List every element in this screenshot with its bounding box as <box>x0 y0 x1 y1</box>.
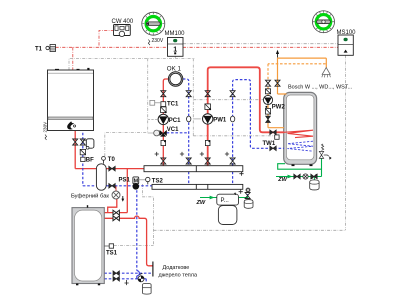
svg-text:TW1: TW1 <box>263 141 276 147</box>
svg-text:Додаткове: Додаткове <box>163 265 190 271</box>
svg-text:PW1: PW1 <box>213 118 227 124</box>
svg-text:Буферний бак: Буферний бак <box>71 193 109 200</box>
svg-text:230V: 230V <box>152 38 164 44</box>
svg-text:TS1: TS1 <box>106 251 118 257</box>
svg-text:230V: 230V <box>43 121 48 133</box>
svg-text:VC1: VC1 <box>167 127 179 133</box>
svg-text:P...: P... <box>221 198 230 204</box>
svg-text:PC1: PC1 <box>169 118 181 124</box>
svg-text:PS1: PS1 <box>119 177 131 183</box>
svg-text:T0: T0 <box>108 157 116 163</box>
svg-text:джерело тепла: джерело тепла <box>159 273 198 279</box>
svg-text:T1: T1 <box>35 46 43 52</box>
svg-text:ZW: ZW <box>277 177 287 183</box>
svg-text:PW2: PW2 <box>272 105 286 111</box>
svg-text:BF: BF <box>86 158 94 164</box>
svg-text:TC1: TC1 <box>167 101 179 107</box>
svg-text:ZW: ZW <box>196 200 206 206</box>
svg-text:Bosch W ..., WD..., WST...: Bosch W ..., WD..., WST... <box>288 84 353 90</box>
svg-text:OK 1: OK 1 <box>167 66 182 73</box>
svg-text:MM100: MM100 <box>165 31 186 37</box>
svg-text:TS2: TS2 <box>152 178 164 184</box>
